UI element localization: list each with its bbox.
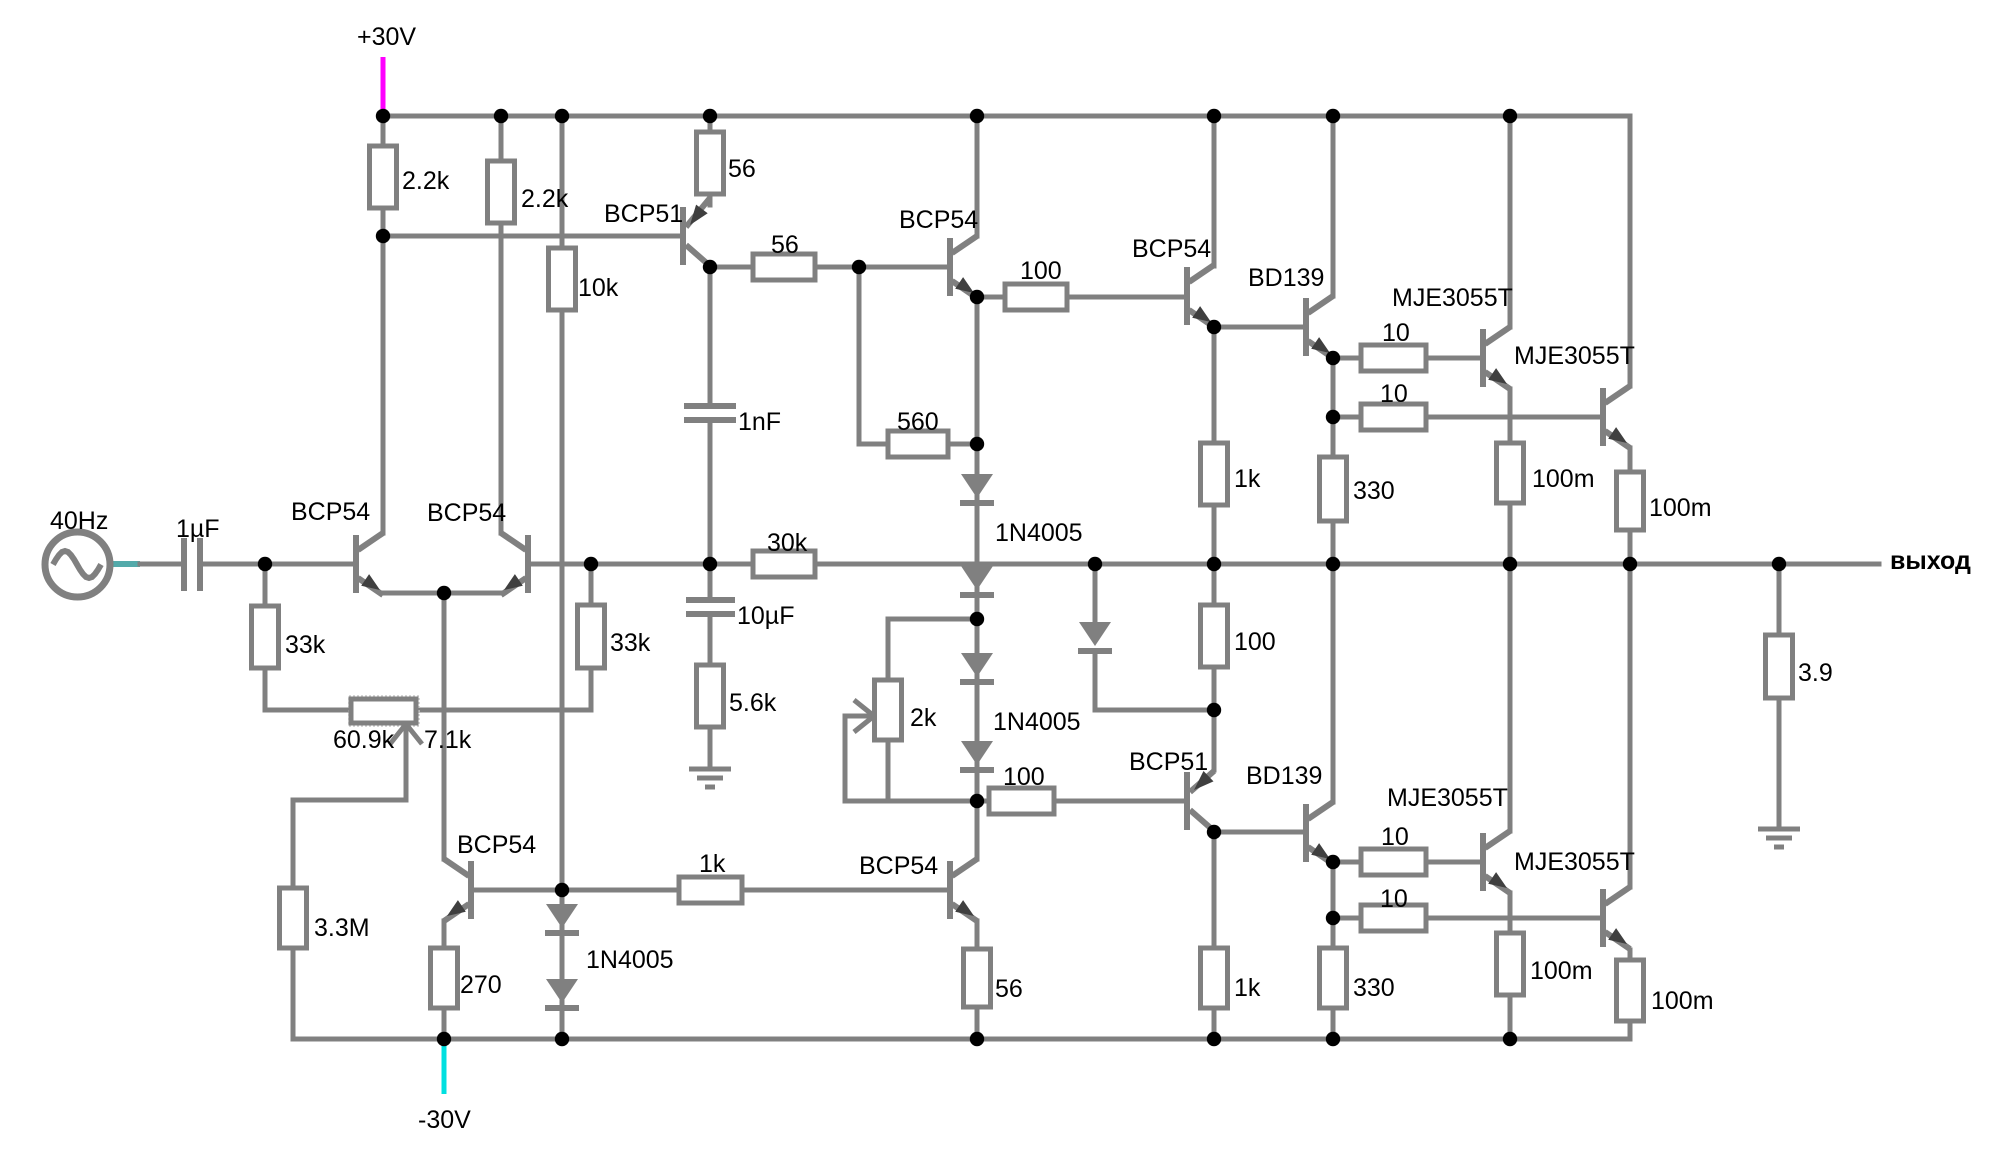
- svg-text:BCP54: BCP54: [427, 499, 506, 527]
- svg-text:BCP51: BCP51: [604, 200, 683, 228]
- wire 100 R24 right lead to BCP51 U11 base: [1054, 799, 1184, 804]
- svg-text:MJE3055T: MJE3055T: [1514, 848, 1635, 876]
- wire 10 R20 right lead to MJE3055T U13 base: [1426, 860, 1480, 865]
- source lead (teal): [108, 561, 140, 567]
- svg-text:10: 10: [1382, 319, 1410, 347]
- wire BD139 U12 emitter node to 10 R26 branch: [1331, 862, 1336, 918]
- wire 10 R26 right lead to MJE3055T U14 base: [1426, 916, 1600, 921]
- svg-text:33k: 33k: [610, 629, 651, 657]
- wire 10k column top: [560, 116, 565, 248]
- svg-text:100: 100: [1234, 628, 1276, 656]
- resistor R17 100m: [1497, 443, 1524, 503]
- wire 1nF bottom to main node: [708, 421, 713, 564]
- junction bottom rail at 56 R23: [970, 1032, 984, 1046]
- +30V supply lead (magenta): [381, 57, 386, 114]
- svg-text:3.9: 3.9: [1798, 659, 1833, 687]
- wire 560 left lead: [859, 442, 888, 447]
- wire BCP54 U4 collector to top rail: [975, 116, 980, 236]
- wire 10 R10 right lead to MJE3055T U7 base: [1426, 356, 1480, 361]
- wire MJE3055T U14 collector to output line: [1628, 564, 1633, 887]
- svg-text:100m: 100m: [1649, 494, 1712, 522]
- wire input to 1uF: [140, 562, 183, 567]
- wire 3.9 R19 to ground: [1777, 698, 1782, 827]
- wire BCP51 U11 collector node to BD139 U12 base: [1214, 830, 1305, 835]
- wire 5.6k to ground: [708, 727, 713, 769]
- svg-text:BCP54: BCP54: [457, 831, 536, 859]
- junction 10/330 branch lower: [1326, 911, 1340, 925]
- wire 330 R27 to bottom rail: [1331, 1008, 1336, 1039]
- junction top rail at 56 R4: [703, 109, 717, 123]
- wire 10 R13 right lead to MJE3055T U8 base: [1426, 415, 1600, 420]
- wire 1k R25 to bottom rail: [1212, 1008, 1217, 1039]
- resistor R9 5.6k: [697, 665, 724, 727]
- transistor U11 BCP51 lower pre-driver: [1187, 771, 1214, 831]
- wire 100m R18 to output line: [1628, 530, 1633, 564]
- junction U12 emitter node: [1326, 855, 1340, 869]
- svg-text:1N4005: 1N4005: [586, 946, 674, 974]
- wire 100 R16 to lower node: [1212, 667, 1217, 710]
- svg-text:10k: 10k: [578, 274, 619, 302]
- -30V supply lead (cyan): [442, 1041, 447, 1094]
- junction top rail at 10k: [555, 109, 569, 123]
- junction top rail at U6 collector: [1326, 109, 1340, 123]
- potentiometer P1 68k body: [349, 696, 419, 726]
- svg-text:10: 10: [1380, 380, 1408, 408]
- svg-text:330: 330: [1353, 974, 1395, 1002]
- junction 56/560 branch node: [852, 260, 866, 274]
- svg-text:BD139: BD139: [1248, 264, 1324, 292]
- resistor R12 1k: [1201, 443, 1228, 505]
- junction 33k R8 top node: [584, 557, 598, 571]
- wire diode chain D2: [975, 564, 980, 619]
- wire 1k R22 right lead to BCP54 U10 base: [742, 888, 947, 893]
- wire 2.2k R1 top lead: [381, 116, 386, 146]
- source V1 40Hz: [45, 532, 110, 597]
- wire input bias node to 33k R3: [263, 564, 268, 606]
- wire main output line: [531, 562, 1879, 567]
- svg-text:BCP54: BCP54: [899, 206, 978, 234]
- wire 330 R14 to output line: [1331, 521, 1336, 564]
- svg-text:7.1k: 7.1k: [424, 726, 472, 754]
- resistor R5 56: [753, 254, 815, 280]
- diode D3 1N4005: [960, 653, 994, 682]
- svg-text:1N4005: 1N4005: [993, 708, 1081, 736]
- svg-text:330: 330: [1353, 477, 1395, 505]
- ground under 5.6k: [689, 769, 731, 787]
- wire 10 R10 left lead: [1333, 356, 1361, 361]
- resistor R8 33k: [578, 605, 605, 668]
- transistor U10 BCP54 lower driver stage: [950, 859, 977, 921]
- svg-text:-30V: -30V: [418, 1106, 471, 1134]
- wire BD139 U6 emitter node to 10 R13 branch: [1331, 358, 1336, 417]
- wire 56 R4 top lead: [708, 116, 713, 132]
- wire 33k R3 bottom and feedback line left: [265, 668, 351, 710]
- wire 10 R20 left lead: [1333, 860, 1361, 865]
- junction 10/330 branch upper: [1326, 410, 1340, 424]
- junction 3.9 node on output: [1772, 557, 1786, 571]
- svg-text:MJE3055T: MJE3055T: [1392, 284, 1513, 312]
- wire 2k pot top connection: [888, 619, 977, 680]
- svg-text:560: 560: [897, 408, 939, 436]
- transistor U4 BCP54 2nd stage: [950, 236, 977, 298]
- svg-text:+30V: +30V: [357, 23, 416, 51]
- svg-text:56: 56: [771, 231, 799, 259]
- resistor R30 560: [888, 431, 948, 457]
- wire current source base: [474, 888, 562, 893]
- svg-text:BCP51: BCP51: [1129, 748, 1208, 776]
- wire D5 cathode down and over to lower driver node: [1095, 651, 1214, 710]
- wire 560 right lead: [948, 442, 974, 447]
- transistor U13 MJE3055T output lower A: [1483, 831, 1510, 893]
- junction 30k/10uF node: [703, 557, 717, 571]
- wire MJE3055T U7 emitter to 100m R17: [1508, 389, 1513, 443]
- wire pot P1 wiper shaft: [293, 724, 406, 888]
- resistor R2 2.2k: [488, 161, 515, 223]
- svg-text:56: 56: [995, 975, 1023, 1003]
- transistor U9 BCP54 tail current source: [444, 859, 471, 921]
- wire U5 emitter node to 1k R12: [1212, 328, 1217, 443]
- junction U11 collector node: [1207, 825, 1221, 839]
- wire 3.3M to bottom rail: [291, 948, 296, 1039]
- svg-text:1nF: 1nF: [738, 408, 781, 436]
- transistor U5 BCP54 pre-driver: [1187, 265, 1214, 327]
- svg-text:1k: 1k: [1234, 974, 1261, 1002]
- resistor R7 10k: [549, 248, 576, 310]
- wire main node to 10uF: [708, 564, 713, 600]
- wire 10uF to 5.6k: [708, 616, 713, 665]
- wire diode string column to bottom rail: [560, 890, 565, 1039]
- junction top rail at U4 collector: [970, 109, 984, 123]
- wire 2k pot wiper shaft and down to bias node: [845, 716, 977, 801]
- wire MJE3055T U13 emitter to 100m R28: [1508, 893, 1513, 933]
- svg-text:выход: выход: [1890, 547, 1971, 575]
- svg-text:40Hz: 40Hz: [50, 507, 108, 535]
- svg-text:100m: 100m: [1532, 465, 1595, 493]
- transistor Q2 BCP54 input right: [501, 533, 528, 595]
- resistor R29 100m: [1617, 960, 1644, 1021]
- wire 100 R24 left lead: [977, 799, 989, 804]
- capacitor C3 10uF: [686, 600, 735, 614]
- wire MJE3055T U8 emitter to 100m R18: [1628, 448, 1633, 472]
- wire 56 R5 right lead to BCP54 U4 base: [815, 265, 947, 270]
- wire tail node to current source collector: [442, 593, 447, 859]
- resistor R21 270: [431, 948, 458, 1008]
- diode D7 1N4005: [545, 979, 579, 1008]
- svg-text:100m: 100m: [1530, 957, 1593, 985]
- junction top rail at R2: [494, 109, 508, 123]
- wire branch down from 56/base node: [857, 267, 862, 444]
- wire current source emitter to 270: [442, 921, 447, 948]
- junction D5 anode node: [1088, 557, 1102, 571]
- resistor R3 33k: [252, 606, 279, 668]
- wire U5 emitter node to BD139 U6 base: [1214, 325, 1305, 330]
- wire 100m R28 to bottom rail: [1508, 995, 1513, 1039]
- capacitor C2 1nF: [684, 406, 736, 420]
- wire node A down to Q1 collector: [381, 236, 386, 533]
- svg-text:10: 10: [1380, 885, 1408, 913]
- wire MJE3055T U7 collector to top rail: [1508, 116, 1513, 327]
- junction bottom rail at 270: [437, 1032, 451, 1046]
- junction bias lower node: [970, 794, 984, 808]
- svg-text:1µF: 1µF: [176, 515, 220, 543]
- wire BCP54 U10 emitter to 56 R23: [975, 921, 980, 949]
- resistor R4 56: [697, 132, 724, 194]
- svg-text:33k: 33k: [285, 631, 326, 659]
- wire 2.2k R2 top lead: [499, 116, 504, 161]
- resistor R18 100m: [1617, 472, 1644, 530]
- transistor U14 MJE3055T output lower B: [1603, 887, 1630, 949]
- wire 100m R17 to output line: [1508, 503, 1513, 564]
- svg-text:10: 10: [1381, 823, 1409, 851]
- junction bottom rail at 1k R25: [1207, 1032, 1221, 1046]
- wire 33k R8 bottom: [416, 668, 591, 710]
- wire 2.2k R2 bottom to Q2 collector: [499, 223, 504, 533]
- junction U4 emitter node: [970, 290, 984, 304]
- resistor R20 10: [1361, 849, 1426, 875]
- junction D5/lower driver node: [1207, 703, 1221, 717]
- wire diode chain D3 D4: [975, 619, 980, 801]
- wire bottom rail: [293, 1037, 1630, 1042]
- junction 100m R18 node on output: [1623, 557, 1637, 571]
- wire 33k R8 top: [589, 564, 594, 605]
- junction 1k R12/100 R16 node: [1207, 557, 1221, 571]
- junction bottom rail at 100m R28: [1503, 1032, 1517, 1046]
- resistor R26 10: [1361, 905, 1426, 931]
- svg-text:1k: 1k: [699, 850, 726, 878]
- junction bottom rail at diodes: [555, 1032, 569, 1046]
- transistor U3 BCP51 VAS: [683, 198, 710, 266]
- svg-text:30k: 30k: [767, 529, 808, 557]
- junction BCP51 collector node: [703, 260, 717, 274]
- junction top rail at U7 collector: [1503, 109, 1517, 123]
- junction 100m R17 node on output: [1503, 557, 1517, 571]
- potentiometer P2 wiper arrow: [854, 700, 874, 732]
- wire BCP51 collector node to 1nF: [708, 267, 713, 403]
- wire 2.2k R1 bottom lead to node A: [381, 208, 386, 236]
- wire 1k R22 left lead: [562, 888, 679, 893]
- junction pot P2 top node: [970, 612, 984, 626]
- resistor R16 100: [1201, 605, 1228, 667]
- resistor R23 56: [964, 949, 991, 1007]
- diode D1 1N4005: [960, 474, 994, 503]
- wire 2k pot bottom lead: [886, 740, 891, 801]
- wire 1k R12 to output line: [1212, 505, 1217, 564]
- diode D6 1N4005: [545, 904, 579, 933]
- wire MJE3055T U13 collector to output line: [1508, 564, 1513, 831]
- junction 560/diode node: [970, 437, 984, 451]
- svg-text:56: 56: [728, 155, 756, 183]
- junction bottom rail at 330 R27: [1326, 1032, 1340, 1046]
- transistor U6 BD139 driver upper: [1306, 296, 1333, 358]
- resistor R11 3.3M: [280, 888, 307, 948]
- resistor R6 100: [1005, 284, 1067, 310]
- resistor R19 3.9: [1766, 635, 1793, 698]
- wire 56 R5 left lead: [710, 265, 753, 270]
- resistor R14 330: [1320, 457, 1347, 521]
- wire 10 R26 left lead: [1333, 916, 1361, 921]
- resistor R24 100: [989, 788, 1054, 814]
- wire BD139 U12 collector to output line: [1331, 564, 1336, 802]
- junction top rail at R1: [376, 109, 390, 123]
- wire 270 to bottom rail: [442, 1008, 447, 1039]
- diode D2 1N4005: [960, 566, 994, 595]
- resistor R10 10: [1361, 345, 1426, 371]
- wire 56 R4 bottom to BCP51 emitter: [708, 194, 713, 205]
- svg-text:MJE3055T: MJE3055T: [1387, 784, 1508, 812]
- wire 3.9 R19 top lead: [1777, 564, 1782, 635]
- potentiometer P2 2k body: [875, 680, 902, 740]
- svg-text:100: 100: [1003, 763, 1045, 791]
- wire 1uF to Q1 base: [203, 562, 354, 567]
- wire second rail node A to BCP51 U3 base: [383, 234, 683, 239]
- junction current source base node: [555, 883, 569, 897]
- svg-text:BCP54: BCP54: [1132, 235, 1211, 263]
- svg-text:BCP54: BCP54: [291, 498, 370, 526]
- resistor R27 330: [1320, 948, 1347, 1008]
- wire 100 R6 right lead to BCP54 U5 base: [1067, 295, 1184, 300]
- resistor R25 1k: [1201, 948, 1228, 1008]
- resistor R1 2.2k: [370, 146, 397, 208]
- junction U6 emitter node: [1326, 351, 1340, 365]
- wire BCP54 U10 collector lead: [975, 801, 980, 859]
- svg-text:MJE3055T: MJE3055T: [1514, 342, 1635, 370]
- wire output line to 100 R16: [1212, 564, 1217, 605]
- diode D5 1N4005: [1078, 622, 1112, 651]
- svg-text:BCP54: BCP54: [859, 852, 938, 880]
- ground under 3.9: [1758, 829, 1800, 847]
- resistor R13 10: [1361, 404, 1426, 430]
- wire 10 R13 left lead: [1333, 415, 1361, 420]
- wire 100 R6 left lead: [977, 295, 1005, 300]
- svg-text:10µF: 10µF: [737, 602, 794, 630]
- svg-text:100m: 100m: [1651, 987, 1714, 1015]
- wire 10k bottom down to current-source base node: [560, 310, 565, 890]
- wire diode chain D1: [975, 298, 980, 564]
- junction 330 node on output: [1326, 557, 1340, 571]
- wire 56 R23 to bottom rail: [975, 1007, 980, 1039]
- wire MJE3055T U14 emitter to 100m R29: [1628, 950, 1633, 960]
- svg-text:2.2k: 2.2k: [521, 185, 569, 213]
- junction node A 2.2k/base rail: [376, 229, 390, 243]
- junction input node after 1uF: [258, 557, 272, 571]
- svg-text:2.2k: 2.2k: [402, 167, 450, 195]
- wire 100m R29 to bottom rail corner: [1628, 1021, 1633, 1039]
- transistor U12 BD139 driver lower: [1306, 802, 1333, 864]
- wire BD139 U6 collector to top rail: [1331, 116, 1336, 296]
- svg-text:2k: 2k: [910, 704, 937, 732]
- wire 10 R26 node to 330 R27: [1331, 918, 1336, 948]
- svg-text:270: 270: [460, 971, 502, 999]
- transistor Q1 BCP54 input left: [356, 533, 383, 595]
- svg-text:100: 100: [1020, 257, 1062, 285]
- potentiometer P1 wiper arrow: [390, 724, 422, 744]
- transistor U7 MJE3055T output upper A: [1483, 327, 1510, 389]
- wire 10 R13 node to 330 R14: [1331, 417, 1336, 457]
- wire D5 anode from output line: [1093, 564, 1098, 622]
- svg-text:BD139: BD139: [1246, 762, 1322, 790]
- junction input pair tail node: [437, 586, 451, 600]
- resistor R28 100m: [1497, 933, 1524, 995]
- capacitor C1 1uF: [184, 538, 201, 591]
- junction U5 emitter node: [1207, 320, 1221, 334]
- wire U11 collector node to 1k R25: [1212, 832, 1217, 948]
- junction top rail at U5 collector: [1207, 109, 1221, 123]
- wire BCP54 U5 collector to rail: [1212, 116, 1217, 266]
- wire lower node to BCP51 U11 emitter: [1212, 710, 1217, 770]
- svg-text:1k: 1k: [1234, 465, 1261, 493]
- diode D4 1N4005: [960, 741, 994, 770]
- wire +30V top rail: [383, 116, 1630, 386]
- svg-text:1N4005: 1N4005: [995, 519, 1083, 547]
- resistor R22 1k: [679, 877, 742, 903]
- svg-text:5.6k: 5.6k: [729, 689, 777, 717]
- resistor R15 30k: [753, 551, 815, 577]
- svg-text:3.3M: 3.3M: [314, 914, 370, 942]
- transistor U8 MJE3055T output upper B: [1603, 386, 1630, 448]
- svg-text:60.9k: 60.9k: [333, 726, 395, 754]
- wire emitter rail of input pair: [383, 591, 501, 596]
